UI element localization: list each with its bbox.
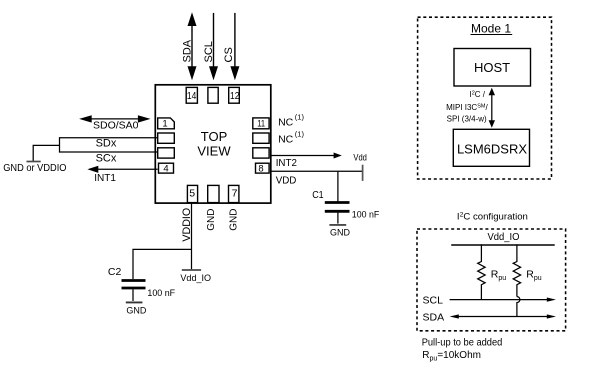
wire tie SDx-SCx <box>59 137 61 153</box>
terminal Vdd_IO <box>182 269 201 271</box>
svg-text:1: 1 <box>162 118 167 129</box>
svg-text:5: 5 <box>189 187 195 199</box>
pin 3 <box>158 148 175 158</box>
pin 11 <box>253 118 269 129</box>
svg-text:VDD: VDD <box>276 175 297 187</box>
Mode 1 dashed enclosure <box>418 17 552 179</box>
terminal bar GND or VDDIO <box>27 161 41 163</box>
pin 12 <box>229 87 240 103</box>
svg-text:100 nF: 100 nF <box>352 209 380 220</box>
wire VDDIO down from pin 5 <box>191 203 193 269</box>
svg-text:Rpu=10kOhm: Rpu=10kOhm <box>422 350 481 363</box>
svg-text:Rpu: Rpu <box>526 269 541 283</box>
svg-text:SDx: SDx <box>96 138 117 150</box>
wire branch to GND or VDDIO <box>33 145 59 161</box>
I2C dashed enclosure <box>417 229 566 331</box>
svg-text:VDDIO: VDDIO <box>181 207 193 241</box>
wire SDO/SA0 (bidirectional) <box>90 118 140 120</box>
pin 5 <box>187 185 197 202</box>
IC U1 LSM6DSRX package outline (TOP VIEW) <box>155 85 270 203</box>
wire CS (input) <box>234 13 236 68</box>
svg-text:11: 11 <box>257 119 265 130</box>
svg-text:SCx: SCx <box>96 152 117 164</box>
svg-text:C1: C1 <box>312 190 324 201</box>
wire junction to C2 <box>133 249 192 279</box>
svg-text:SDO/SA0: SDO/SA0 <box>93 120 139 132</box>
resistor R1 (pull-up) <box>478 245 485 300</box>
svg-text:8: 8 <box>258 163 263 174</box>
wire SCL (I2C) <box>450 299 549 301</box>
svg-text:INT1: INT1 <box>94 172 116 184</box>
wire SCL (input) <box>213 13 215 68</box>
wire HOST-LSM6DSRX (bidirectional) <box>491 92 493 123</box>
svg-text:12: 12 <box>230 90 240 102</box>
ground bar (C2) <box>126 301 143 303</box>
pin 13 <box>208 87 218 103</box>
svg-text:C2: C2 <box>108 266 122 278</box>
resistor R2 (pull-up) <box>513 245 520 297</box>
svg-text:Vdd: Vdd <box>353 152 367 163</box>
svg-text:LSM6DSRX: LSM6DSRX <box>457 141 527 156</box>
wire VDD <box>271 170 363 172</box>
wire INT2 (output) <box>271 155 335 157</box>
svg-text:(1): (1) <box>295 129 305 138</box>
svg-text:I2C configuration: I2C configuration <box>457 212 528 223</box>
svg-text:GND: GND <box>229 209 240 231</box>
pin 9 <box>253 148 269 158</box>
pin 14 <box>186 87 197 103</box>
svg-text:7: 7 <box>232 188 238 200</box>
wire SDA (I2C) <box>456 316 549 318</box>
svg-text:Rpu: Rpu <box>491 269 506 283</box>
svg-text:GND: GND <box>206 209 217 231</box>
svg-text:TOP: TOP <box>201 129 228 144</box>
svg-text:Mode 1: Mode 1 <box>471 22 511 36</box>
pin 10 <box>253 133 269 143</box>
svg-text:Pull-up to be added: Pull-up to be added <box>422 338 503 349</box>
svg-text:VIEW: VIEW <box>197 144 231 159</box>
svg-text:SCL: SCL <box>203 41 215 62</box>
pin 7 <box>229 185 239 202</box>
svg-text:GND: GND <box>126 306 146 317</box>
svg-text:NC: NC <box>278 133 294 145</box>
wire VDD to C1 <box>337 171 339 202</box>
ground bar (C1) <box>329 224 346 226</box>
pin 8 <box>256 163 270 173</box>
svg-text:I2C /: I2C / <box>469 90 485 99</box>
svg-text:SDA: SDA <box>182 39 194 62</box>
wire INT1 (output) <box>97 168 158 170</box>
svg-text:GND: GND <box>330 228 350 239</box>
svg-text:SDA: SDA <box>423 312 445 324</box>
pin 4 <box>159 163 174 173</box>
capacitor C1 <box>325 201 350 204</box>
svg-text:SCL: SCL <box>423 295 444 307</box>
wire SDx <box>60 137 158 139</box>
svg-text:HOST: HOST <box>474 60 510 75</box>
wire SCx <box>60 151 158 153</box>
svg-text:SPI (3/4-w): SPI (3/4-w) <box>447 115 487 124</box>
svg-text:NC: NC <box>278 117 294 129</box>
wire SDA (bidirectional) <box>191 25 193 69</box>
pin 1 (chamfered) <box>158 118 175 129</box>
terminal Vdd <box>362 165 364 181</box>
svg-text:4: 4 <box>163 163 168 174</box>
capacitor C2 <box>122 279 146 282</box>
svg-text:14: 14 <box>187 90 197 102</box>
rail Vdd_IO <box>451 244 555 246</box>
svg-text:MIPI I3CSM/: MIPI I3CSM/ <box>446 103 488 112</box>
svg-text:Vdd_IO: Vdd_IO <box>488 232 520 243</box>
pin 6 <box>208 185 219 202</box>
block HOST <box>454 49 531 87</box>
pin 2 <box>158 133 175 143</box>
svg-text:CS: CS <box>223 47 235 62</box>
svg-text:100 nF: 100 nF <box>147 288 175 299</box>
svg-text:INT2: INT2 <box>276 157 297 169</box>
svg-text:Vdd_IO: Vdd_IO <box>180 273 211 284</box>
svg-text:GND or VDDIO: GND or VDDIO <box>3 162 66 174</box>
svg-text:(1): (1) <box>295 113 305 122</box>
wire R2 hop over SCL <box>517 297 520 317</box>
block LSM6DSRX <box>453 129 529 166</box>
